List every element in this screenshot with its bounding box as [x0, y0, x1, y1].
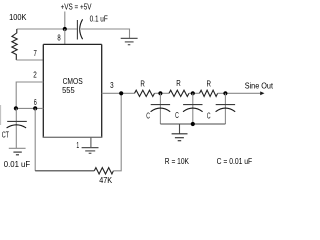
wire top rail left (VS rail from 100K to bypass cap)	[17, 28, 78, 30]
svg-text:0.01 uF: 0.01 uF	[4, 160, 30, 169]
wire pin 3 / ladder main line	[102, 92, 135, 94]
svg-text:+VS = +5V: +VS = +5V	[61, 3, 92, 12]
node pin6 feedback junction	[33, 106, 37, 110]
node C3 junction	[223, 91, 227, 95]
node bus junction	[191, 122, 195, 126]
ground bus	[179, 124, 181, 134]
svg-text:R = 10K: R = 10K	[165, 157, 190, 166]
wire pin 6	[16, 107, 43, 109]
capacitor bypass 0.1 uF: curved plate	[80, 19, 83, 39]
node pin2/pin6/CT junction	[14, 106, 18, 110]
svg-text:Sine Out: Sine Out	[245, 82, 274, 91]
wire feedback right + vertical up to pin3 node	[113, 93, 121, 171]
wire feedback left vertical (pin6 to 47K)	[34, 108, 36, 170]
svg-text:555: 555	[62, 85, 75, 95]
capacitor C2 curved plate	[183, 108, 203, 112]
capacitor CT straight plate	[7, 120, 27, 122]
svg-text:0.1 uF: 0.1 uF	[90, 15, 108, 24]
svg-text:6: 6	[34, 98, 37, 107]
capacitor CT stub and ground stem	[15, 108, 17, 148]
svg-text:R: R	[176, 79, 181, 88]
output arrow	[260, 91, 264, 95]
wire feedback bottom	[35, 170, 94, 172]
wire +VS stub	[64, 12, 66, 30]
svg-text:8: 8	[57, 33, 61, 42]
svg-text:47K: 47K	[99, 176, 113, 184]
IC U1 CMOS 555	[43, 44, 103, 137]
ground pin 1	[90, 137, 92, 147]
capacitor CT curved plate	[7, 125, 27, 128]
wire pin 8 stub	[64, 29, 66, 44]
capacitor C1 straight plate	[151, 104, 170, 106]
wire pin 7	[16, 59, 43, 61]
wire top rail right (bypass cap to ground)	[81, 29, 130, 38]
ground top-right	[121, 38, 138, 44]
resistor R2 (zigzag)	[169, 90, 189, 96]
svg-text:R: R	[207, 80, 212, 89]
node pin3 feedback junction	[119, 91, 123, 95]
resistor R1 (zigzag)	[135, 90, 155, 96]
resistor 47K (horizontal zigzag)	[94, 168, 113, 174]
capacitor C1 curved plate	[151, 108, 171, 112]
wire bottom bus	[160, 123, 225, 125]
svg-text:C = 0.01 uF: C = 0.01 uF	[217, 157, 253, 166]
capacitor C2 stub	[192, 93, 194, 124]
resistor 100K (vertical zigzag)	[12, 29, 17, 60]
node C2 junction	[191, 91, 195, 95]
wire left-edge artifact	[0, 105, 2, 125]
capacitor bypass 0.1 uF: straight plate	[76, 20, 78, 40]
svg-text:R: R	[140, 79, 145, 88]
svg-text:C: C	[207, 112, 211, 121]
wire R3-output	[218, 92, 261, 94]
capacitor C1 stub	[159, 93, 161, 124]
wire R1-R2	[155, 92, 170, 94]
ground below CT	[9, 148, 26, 155]
svg-text:100K: 100K	[9, 13, 27, 22]
svg-text:C: C	[146, 111, 150, 120]
wire R2-R3	[189, 92, 200, 94]
capacitor C2 straight plate	[183, 104, 202, 106]
resistor R3 (zigzag)	[200, 90, 218, 96]
capacitor C3 straight plate	[216, 104, 235, 106]
svg-text:1: 1	[76, 141, 79, 150]
wire pin 2	[16, 82, 43, 108]
svg-text:CT: CT	[2, 131, 9, 140]
svg-text:C: C	[175, 111, 179, 120]
node C1 junction	[158, 91, 162, 95]
node VS junction	[63, 27, 67, 31]
svg-text:3: 3	[110, 81, 114, 90]
svg-text:2: 2	[33, 71, 37, 80]
svg-text:7: 7	[34, 49, 38, 58]
capacitor C3 stub	[224, 93, 226, 124]
capacitor C3 curved plate	[216, 108, 236, 112]
